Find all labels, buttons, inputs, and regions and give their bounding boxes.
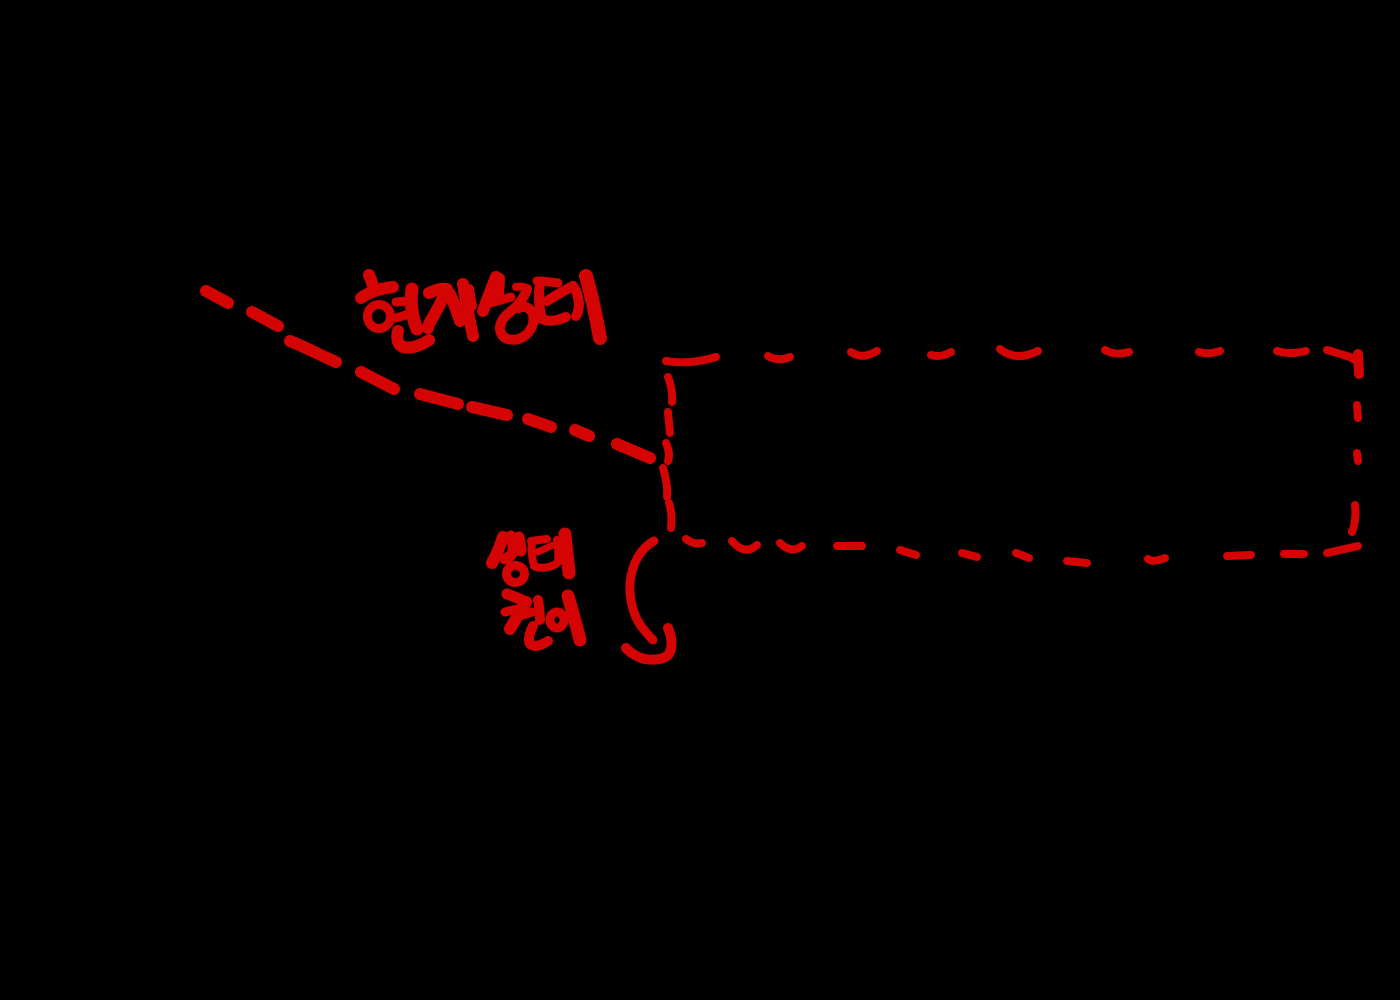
이 tall stroke (568, 596, 580, 640)
rect bottom dash 12 corner (1327, 546, 1358, 553)
rect left dash 4 (663, 468, 667, 497)
rect bottom dash 9 (1148, 558, 1165, 561)
handwritten label 현재상태 (current state) (361, 275, 600, 348)
rect right dash 2 (1357, 405, 1358, 418)
현 tick1 (396, 301, 409, 302)
현 tick2 (396, 314, 409, 318)
wire dash 6 (472, 407, 507, 415)
rect top dash 3 (851, 351, 877, 356)
rect bottom dash 2 (732, 541, 757, 550)
태(small) vertical 1 (557, 540, 558, 562)
재 top bar and left leg (428, 289, 447, 328)
태 top bar (537, 281, 558, 283)
rect left dash 2 (668, 412, 670, 433)
천 bottom hook (529, 626, 548, 646)
rect bottom dash 3 (780, 543, 802, 549)
상(small) circle (507, 566, 525, 583)
wire dash 2 (252, 312, 278, 326)
천 stem (538, 600, 540, 620)
rect left dash 5 (669, 503, 672, 528)
태 middle wave (547, 286, 579, 316)
태 spine and bottom (539, 283, 566, 321)
wire dash 5 (420, 394, 458, 404)
이 circle (550, 612, 564, 628)
현 tick (369, 275, 373, 286)
태(small) spine (532, 541, 556, 568)
현 bottom hook (397, 331, 429, 348)
transition arrow big curve (630, 541, 654, 640)
재 vertical 1 (463, 284, 473, 336)
dashed pointer line from upper-left to rectangle (current state) (206, 291, 650, 458)
rect bottom dash 1 (686, 539, 702, 544)
태(small) vertical 2 (565, 534, 569, 573)
rect top dash 9 corner (1327, 350, 1355, 360)
rect right dash 4 (1352, 505, 1355, 532)
상(small) left leg (492, 537, 503, 563)
rect left dash 3 (666, 443, 669, 461)
상 crossbar (490, 297, 511, 303)
rect bottom dash 11 (1284, 550, 1304, 558)
현 stem (411, 289, 417, 329)
재 vertical 2 (469, 289, 472, 306)
wire dash 8 (575, 430, 589, 436)
천 diagonal (510, 602, 526, 629)
상(small) stem (519, 537, 521, 551)
rect bottom dash 10 (1227, 555, 1251, 556)
rect bottom dash 4 (837, 542, 862, 550)
현 bar (361, 287, 393, 298)
transition arrow hook (626, 628, 672, 660)
상 left leg (483, 277, 496, 311)
wire dash 4 (361, 372, 394, 389)
재 right leg (450, 294, 460, 321)
현 circle (368, 305, 391, 329)
rect top dash 4 (931, 352, 951, 356)
rect bottom dash 5 (900, 550, 916, 555)
rect top dash 2 (768, 356, 790, 359)
태(small) top bar (531, 539, 547, 541)
rect bottom dash 8 (1067, 561, 1087, 563)
천 top bar (507, 594, 526, 602)
rect top dash 8 (1277, 351, 1306, 353)
rect top dash 5 (1000, 349, 1038, 356)
wire dash 1 (206, 291, 228, 303)
rect top dash 7 (1199, 351, 1220, 353)
rect right dash 1 (1358, 354, 1359, 374)
상 inner stroke (499, 278, 500, 297)
dashed rectangle (663, 349, 1359, 563)
handwritten label 상태 천이 (state transition) (492, 534, 580, 646)
천 right branch (517, 612, 532, 617)
rect bottom dash 7 (1016, 553, 1029, 558)
rect bottom dash 6 (962, 553, 977, 557)
태(small) middle bar (538, 545, 553, 552)
천 left tick (505, 609, 517, 612)
rect top dash 6 (1105, 350, 1129, 354)
상(small) right leg hook (505, 536, 513, 559)
상 top tick (516, 287, 527, 288)
wire dash 9 (617, 444, 650, 458)
rect top dash 1 (666, 357, 716, 362)
rect right dash 3 (1357, 453, 1358, 461)
rect left dash 1 (668, 377, 672, 402)
wire dash 7 (528, 419, 551, 427)
태 tall stroke (586, 276, 600, 338)
상 stem and loop (500, 289, 534, 340)
wire dash 3 (290, 341, 336, 362)
